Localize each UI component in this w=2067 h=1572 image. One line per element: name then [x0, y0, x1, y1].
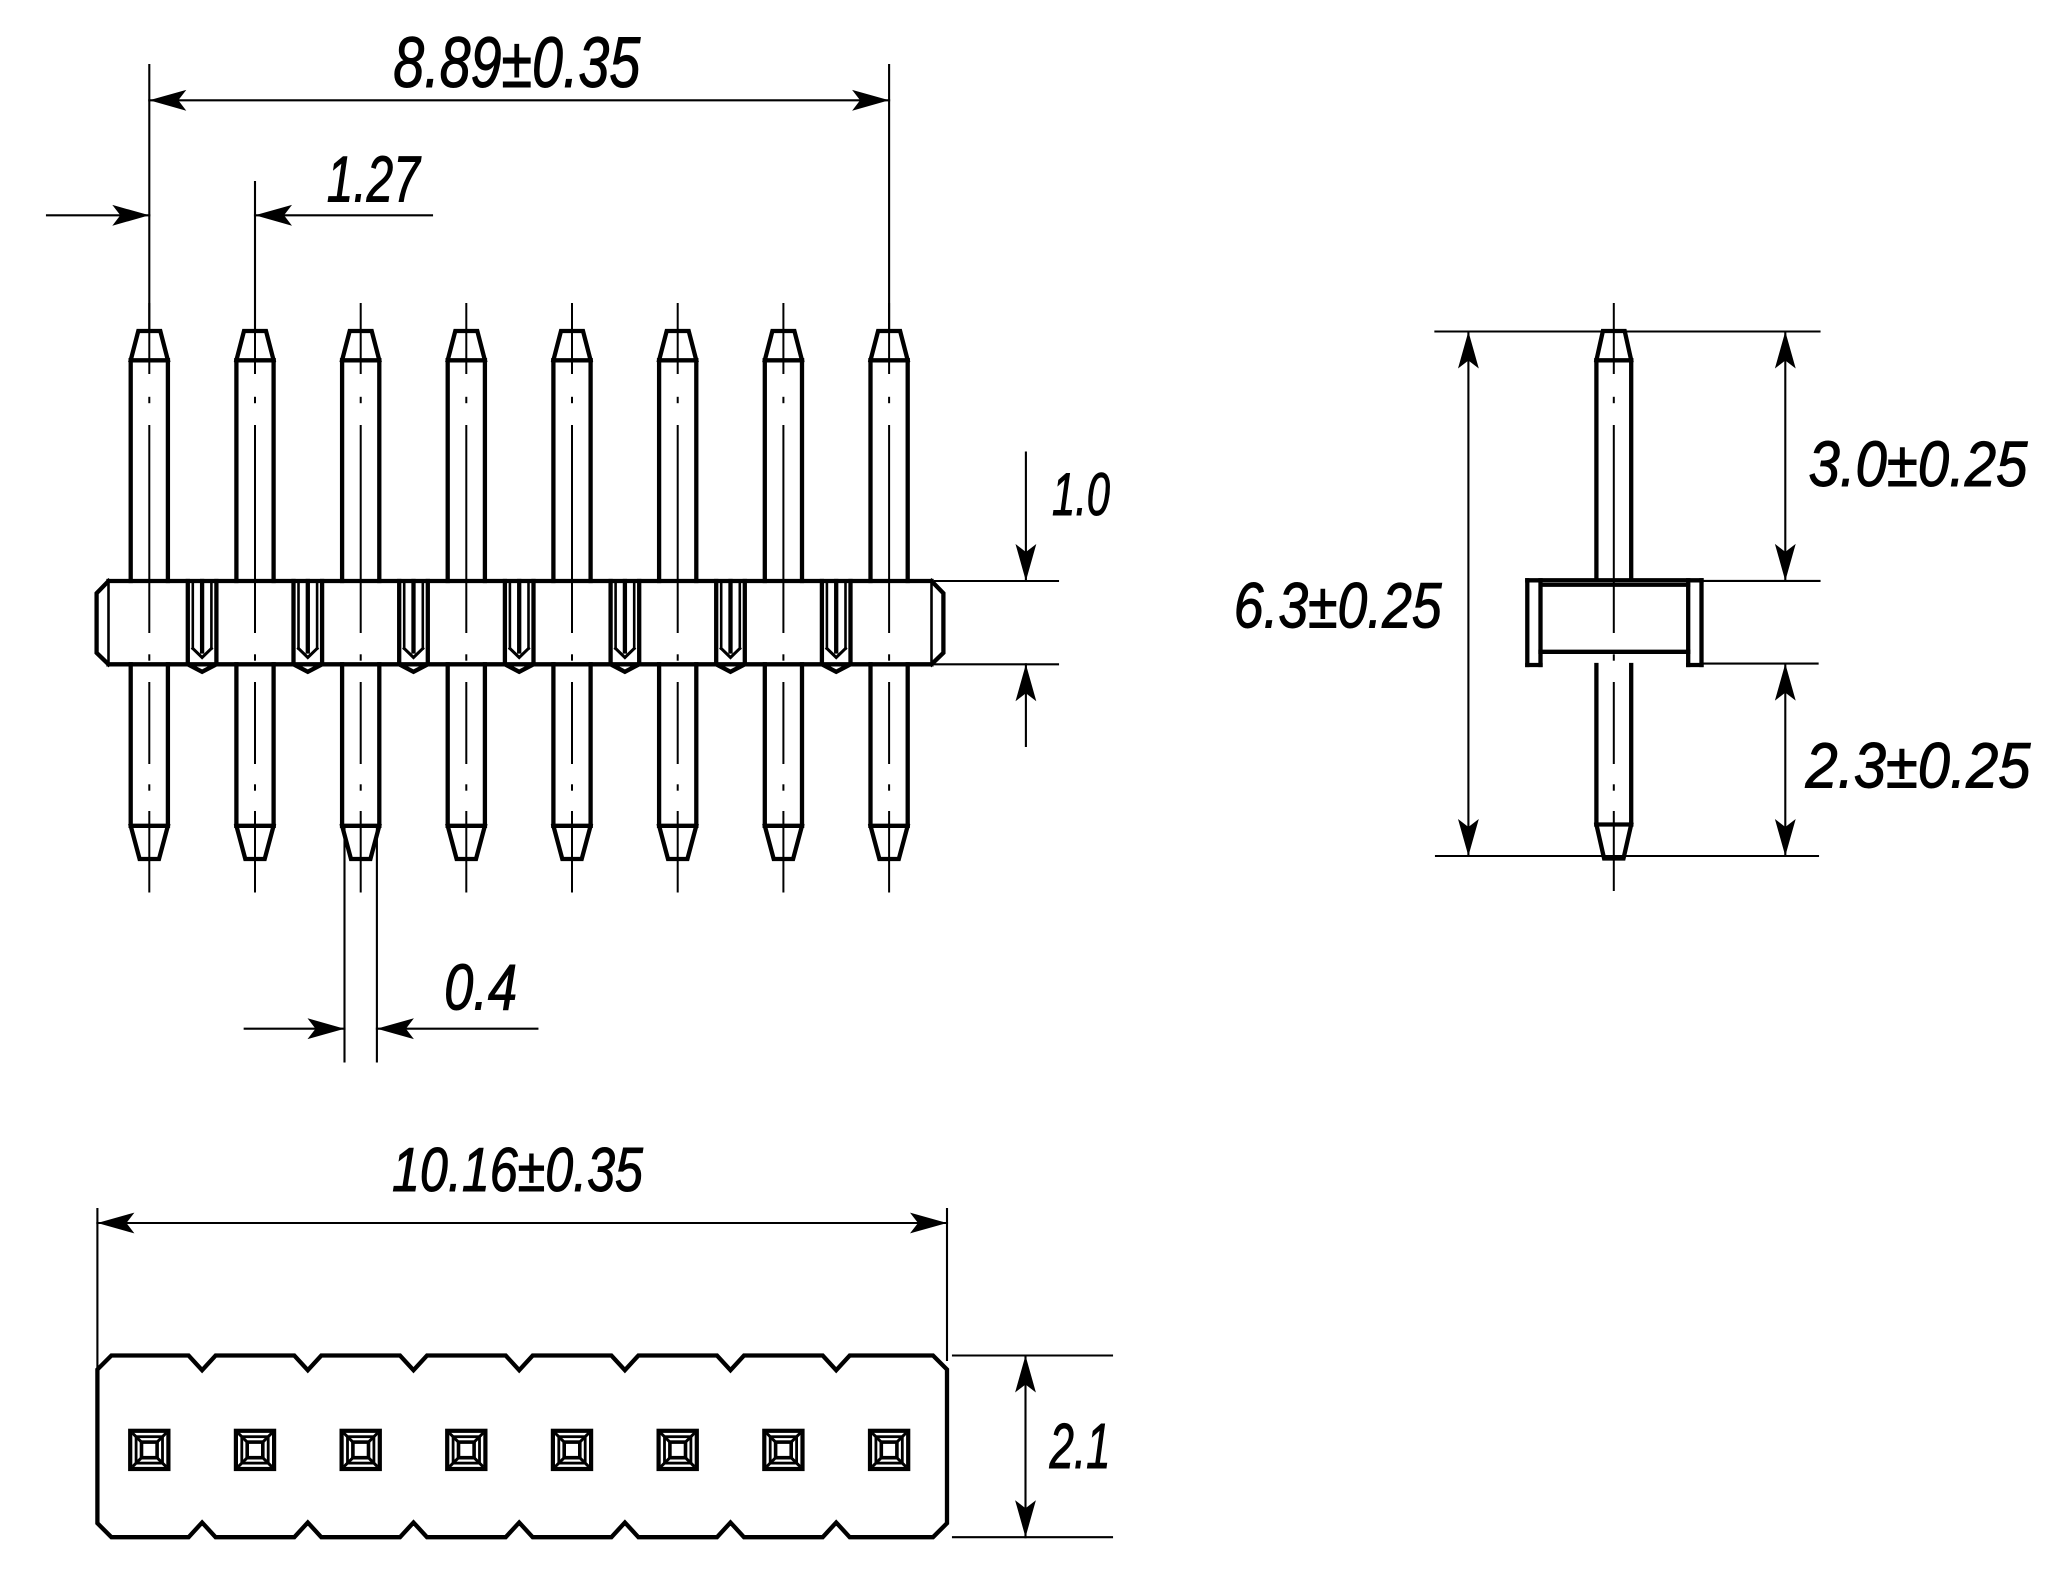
- pin 7 tail cross-section (bottom view): [764, 1431, 802, 1469]
- svg-text:2.3±0.25: 2.3±0.25: [1805, 730, 2031, 802]
- pin 6 centerline: [677, 304, 679, 892]
- dimension 1.0 (body height): [935, 453, 1110, 747]
- pin 4 (front view): [448, 331, 485, 859]
- dimension 6.3±0.25 (overall pin length): [1234, 332, 1820, 857]
- body breakaway groove 3: [399, 581, 428, 672]
- pin 3 (front view): [342, 331, 379, 859]
- pin 8 (front view): [871, 331, 908, 859]
- insulator body (side view): [1527, 580, 1701, 665]
- pin 4 tail cross-section (bottom view): [447, 1431, 485, 1469]
- pin 6 tail cross-section (bottom view): [659, 1431, 697, 1469]
- pin 6 (front view): [659, 331, 696, 859]
- pin 5 (front view): [553, 331, 590, 859]
- svg-text:2.1: 2.1: [1049, 1410, 1111, 1482]
- pin 1 tail cross-section (bottom view): [130, 1431, 168, 1469]
- pin 2 (front view): [236, 331, 273, 859]
- pin 3 tail cross-section (bottom view): [342, 1431, 380, 1469]
- dimension 0.4 (pin thickness): [245, 826, 538, 1062]
- body breakaway groove 7: [822, 581, 851, 672]
- pin 7 centerline: [782, 304, 784, 892]
- dimension 3.0±0.25 (mating pin length): [1702, 332, 2028, 581]
- dimension 1.27 (pin pitch): [47, 143, 432, 332]
- body breakaway groove 5: [611, 581, 640, 672]
- body breakaway groove 6: [716, 581, 745, 672]
- pin centerline (side view): [1613, 304, 1615, 890]
- pin 2 tail cross-section (bottom view): [236, 1431, 274, 1469]
- body breakaway groove 1: [188, 581, 217, 672]
- svg-text:0.4: 0.4: [444, 951, 517, 1024]
- svg-text:8.89±0.35: 8.89±0.35: [393, 24, 640, 103]
- svg-text:1.0: 1.0: [1052, 461, 1110, 528]
- body breakaway groove 4: [505, 581, 534, 672]
- dimension 2.1 (body width): [953, 1356, 1112, 1538]
- insulator body outline (bottom view): [97, 1356, 947, 1538]
- pin 8 tail cross-section (bottom view): [870, 1431, 908, 1469]
- pin 2 centerline: [254, 304, 256, 892]
- pin 4 centerline: [465, 304, 467, 892]
- pin 8 centerline: [888, 304, 890, 892]
- svg-text:10.16±0.35: 10.16±0.35: [392, 1136, 643, 1205]
- pin 1 centerline: [148, 304, 150, 892]
- pin 7 (front view): [765, 331, 802, 859]
- svg-text:1.27: 1.27: [327, 143, 422, 216]
- pin 3 centerline: [360, 304, 362, 892]
- pin 5 centerline: [571, 304, 573, 892]
- pin 5 tail cross-section (bottom view): [553, 1431, 591, 1469]
- dimension 8.89±0.35 (pin row span): [149, 24, 889, 331]
- dimension 10.16±0.35 (body length): [97, 1136, 947, 1368]
- dimension 2.3±0.25 (solder tail length): [1702, 664, 2031, 856]
- svg-text:6.3±0.25: 6.3±0.25: [1234, 570, 1442, 642]
- body breakaway groove 2: [294, 581, 323, 672]
- svg-text:3.0±0.25: 3.0±0.25: [1809, 428, 2028, 500]
- insulator body (front view): [97, 581, 944, 664]
- pin 1 (front view): [131, 331, 168, 859]
- pin (side view): [1596, 331, 1631, 859]
